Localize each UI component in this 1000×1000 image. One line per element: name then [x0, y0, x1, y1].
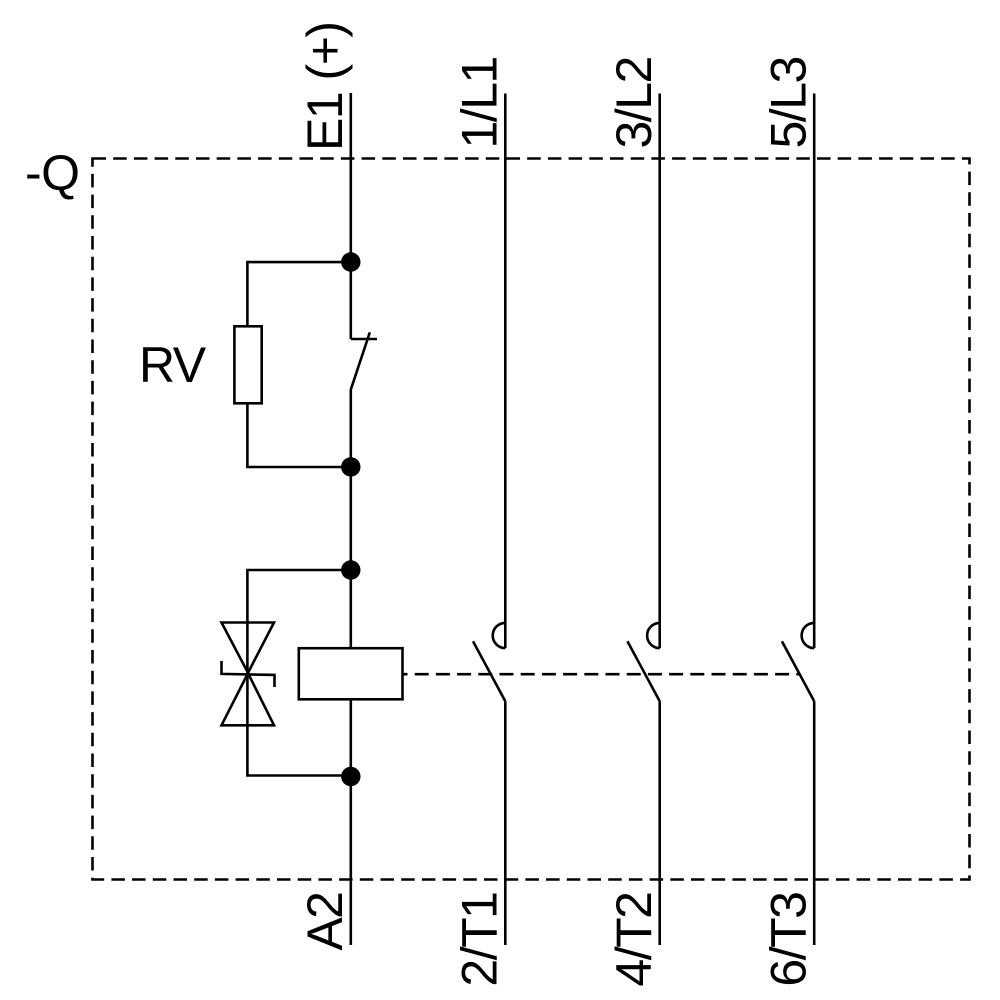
resistor RV body: [234, 326, 261, 403]
pole 3/L2-4/T2 line lower segment: [658, 701, 661, 945]
pole 1/L1 moving lever: [473, 641, 505, 701]
pole 1/L1-2/T1 line lower segment: [504, 701, 507, 945]
suppressor diode lower triangle: [222, 673, 275, 725]
pole 3/L2 moving lever: [627, 641, 659, 701]
svg-text:1/L1: 1/L1: [452, 57, 508, 148]
pole 3/L2 main-contact arc: [647, 623, 660, 648]
wire suppressor branch (left loop): [247, 570, 350, 776]
contact S1 moving lever (NO contact in E1 path): [351, 332, 370, 390]
node junction dot (RV bottom): [341, 457, 360, 476]
wire E1/A2 vertical line upper segment: [349, 93, 352, 339]
pole 5/L3-6/T3 line upper segment: [813, 94, 816, 649]
svg-text:6/T3: 6/T3: [761, 893, 817, 987]
node junction dot (coil top / suppressor top): [341, 560, 360, 579]
pole 1/L1 main-contact arc: [493, 623, 506, 648]
svg-text:2/T1: 2/T1: [452, 893, 508, 987]
pole 5/L3 moving lever: [782, 641, 814, 701]
wire RV branch bottom: [247, 403, 350, 467]
pole 5/L3 main-contact arc: [802, 623, 815, 648]
wire E1/A2 vertical line middle segment: [349, 390, 352, 648]
svg-text:-Q: -Q: [25, 145, 80, 201]
wire E1/A2 vertical line lower segment: [349, 699, 352, 945]
suppressor zener bar: [222, 661, 275, 687]
svg-text:E1 (+): E1 (+): [297, 22, 353, 151]
wire RV branch top: [247, 262, 350, 326]
svg-text:5/L3: 5/L3: [761, 57, 817, 148]
pole 5/L3-6/T3 line lower segment: [813, 701, 816, 945]
enclosure outline -Q (dashed boundary): [93, 159, 970, 880]
pole 1/L1-2/T1 line upper segment: [504, 94, 507, 649]
suppressor diode upper triangle: [222, 623, 275, 673]
svg-text:4/T2: 4/T2: [606, 893, 662, 987]
coil K1 body: [299, 648, 403, 699]
svg-text:3/L2: 3/L2: [606, 57, 662, 148]
svg-text:A2: A2: [297, 893, 353, 951]
contact S1 fixed tick: [351, 338, 377, 341]
mechanical link (dashed actuator line): [403, 673, 801, 676]
node junction dot (coil bottom / suppressor bottom): [341, 767, 360, 786]
svg-text:RV: RV: [139, 337, 207, 393]
pole 3/L2-4/T2 line upper segment: [658, 94, 661, 649]
node junction dot (E1 to RV top): [341, 252, 360, 271]
